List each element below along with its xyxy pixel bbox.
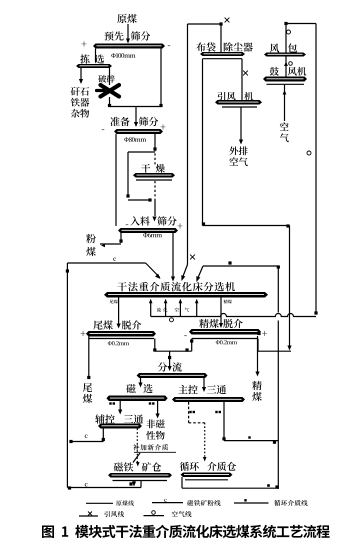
- blower deck 鼓风机: [263, 77, 307, 82]
- wire: medium under tailings screen: [154, 339, 156, 352]
- magnetite bunker deck: [108, 473, 172, 478]
- screen deck: 预先筛分: [93, 44, 165, 49]
- splitter tap: [169, 351, 171, 366]
- aux three-way label 辅控三通: [95, 414, 115, 423]
- tailings de-medium deck: [86, 331, 156, 337]
- air intake label 空气: [280, 122, 289, 130]
- screen underline: [89, 338, 154, 340]
- mesh size label Φ80mm: [124, 137, 146, 142]
- bunker underline: [185, 479, 228, 481]
- induced draft fan label 引风机: [218, 92, 236, 101]
- blower label 鼓风机: [270, 67, 279, 76]
- separator right tiny label: [224, 300, 232, 304]
- legend row2 sample: x line 引风线: [79, 515, 98, 517]
- legend row2 sample: o line 空气线: [144, 515, 165, 517]
- minus sign: [102, 129, 105, 132]
- add new medium note 补加新介质: [133, 444, 168, 450]
- wire: undersize bypass right side: [160, 49, 162, 107]
- fluidizing air up arrows: [150, 302, 152, 317]
- bag dust collector connection wire (top): [188, 23, 222, 25]
- wire: picked coal to crusher: [109, 68, 111, 85]
- main three-way label 主控三通: [178, 385, 197, 394]
- wire: circulating bunker discharge to right: [181, 477, 183, 488]
- caption 图1: [42, 525, 330, 538]
- blower underline: [267, 83, 305, 85]
- feed screen label 入料筛分: [130, 216, 150, 225]
- wire: dryer bypass: [128, 151, 155, 153]
- mesh label: [108, 341, 129, 345]
- left medium return line: [67, 262, 145, 264]
- air manifold under separator (with hops): [151, 314, 316, 317]
- separator left tiny label: [110, 300, 118, 304]
- wire: main three-way to right medium line: [223, 402, 225, 441]
- crusher symbol (crossed hammers): [97, 85, 120, 97]
- wire: non-magnetics: [157, 401, 159, 414]
- wire: crushed coal down: [109, 97, 111, 107]
- wire: medium under clean screen to right: [257, 339, 259, 352]
- fan underline: [222, 106, 257, 108]
- preliminary screen label 预先筛分: [104, 31, 123, 40]
- left medium vertical: [66, 263, 68, 488]
- wire: separator to tailings de-medium screen: [118, 298, 120, 325]
- aux three-way deck 辅控三通: [98, 424, 142, 429]
- dust line: vertical from separator to top: [187, 24, 189, 265]
- circulating medium bunker label 循环介质仓: [180, 462, 199, 471]
- circulating medium bunker deck: [181, 473, 233, 478]
- air receiver deck 风包: [264, 53, 306, 57]
- wire: exhaust: [240, 107, 242, 140]
- plus sign: [178, 223, 183, 228]
- legend row1 sample: c line 磁铁矿粉线: [152, 502, 183, 504]
- picking label 拣选: [80, 54, 89, 63]
- wire: splitter to main three-way: [203, 378, 205, 388]
- dryer deck 干燥: [133, 173, 175, 178]
- separator label 干法重介质流化床分选机: [117, 282, 235, 292]
- screen deck: 入料筛分: [118, 228, 178, 233]
- secondary air branch (line B): [277, 266, 279, 313]
- mesh size label Φ100mm: [111, 53, 135, 58]
- wire: feed screen oversize into separator: [172, 233, 174, 278]
- wire: oversize to picking: [95, 49, 97, 63]
- wire: splitter to magnetic separation: [140, 378, 142, 383]
- collector deck: [200, 52, 245, 56]
- magnetic separator deck 磁选: [106, 396, 167, 402]
- crusher label 破碎: [98, 75, 114, 83]
- plus sign: [161, 124, 166, 129]
- wire: magnetics to aux three-way: [119, 401, 121, 410]
- dryer label 干燥: [141, 164, 150, 173]
- picking deck 拣选: [76, 64, 112, 68]
- collector to fan wire: [241, 59, 243, 100]
- splitter label 分流: [158, 362, 168, 371]
- wire: separator to clean-coal de-medium screen: [220, 298, 222, 324]
- line B lower vertical to medium return: [277, 321, 279, 490]
- x marker on dust line: [225, 18, 230, 23]
- dashed: main three-way loop: [188, 402, 190, 423]
- non-magnetic material label 非磁性物: [146, 419, 164, 428]
- bunker underline: [113, 480, 168, 482]
- wire: undersize left side long down to feed screen: [115, 134, 117, 226]
- tailings de-medium label 尾煤脱介: [93, 320, 113, 329]
- wire: aux three-way to medium return (left): [102, 429, 104, 442]
- raw coal label 原煤: [117, 14, 137, 23]
- air main: right frame: [315, 24, 317, 314]
- wire: clean coal product: [257, 332, 260, 335]
- screen underline: [192, 338, 258, 340]
- magnetic separation label 磁选: [126, 384, 135, 393]
- tailings label 尾煤: [83, 383, 92, 392]
- clean coal de-medium deck: [189, 329, 261, 335]
- wire: fines to 粉煤: [120, 233, 122, 243]
- fan deck 引风机: [215, 100, 262, 105]
- wire: raw coal feed to preliminary screen: [127, 24, 129, 42]
- bag dust collector label 布袋除尘器: [196, 42, 215, 51]
- clean-coal de-medium label 精煤脱介: [199, 319, 219, 328]
- legend row1 sample: plain line 原煤线: [86, 502, 113, 504]
- plus sign: [81, 331, 86, 336]
- air receiver top wire: [286, 23, 316, 25]
- wire: magnetite bunker discharge: [133, 481, 135, 483]
- wire: to feed screen: [154, 200, 156, 216]
- fine coal label 粉煤: [86, 234, 96, 243]
- minus sign: [126, 224, 129, 227]
- collector box left side (line A to lower right): [202, 59, 204, 225]
- wire: air intake: [284, 84, 286, 121]
- tiny air labels between arrows: [157, 308, 161, 312]
- plus sign: [262, 331, 267, 336]
- dashed: aux three-way to magnetite bunker: [136, 429, 138, 463]
- refuse labels 矸石 铁器 杂物: [71, 87, 89, 96]
- splitter deck 分流: [137, 373, 208, 378]
- separator deck: [104, 292, 268, 298]
- collector underline: [203, 58, 243, 60]
- mesh size label Φ6mm: [143, 233, 162, 238]
- mesh label: [216, 340, 237, 344]
- wire: dashed below dryer: [154, 181, 156, 200]
- minus sign (undersize): [168, 45, 171, 48]
- screen deck: 准备筛分: [114, 129, 163, 134]
- wire: dashed through dryer: [154, 149, 156, 166]
- exhaust air label 外排空气: [229, 146, 247, 155]
- plus sign (oversize): [82, 41, 87, 46]
- clean coal label 精煤: [252, 381, 262, 390]
- wire: junction to preparation screen: [110, 106, 162, 108]
- wire: tailings product: [88, 337, 90, 379]
- wire: blower to receiver: [285, 57, 287, 77]
- dryer underline: [136, 179, 172, 181]
- preparation screen label 准备筛分: [110, 117, 129, 126]
- wire: oversize right to dryer junction: [154, 134, 156, 149]
- main three-way deck 主控三通: [172, 397, 245, 402]
- air receiver label 风包: [270, 43, 279, 52]
- minus sign: [184, 335, 187, 338]
- legend row1 sample: square line 循环介质线: [234, 502, 269, 504]
- wire: refuse down arrow: [80, 68, 82, 82]
- magnetite bunker label 磁铁矿仓: [114, 462, 134, 471]
